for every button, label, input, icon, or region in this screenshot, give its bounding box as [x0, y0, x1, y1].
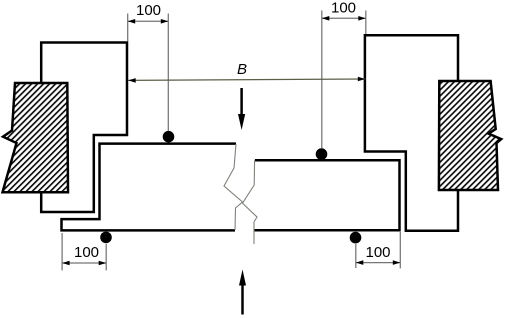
- load arrow up: [241, 285, 244, 315]
- right support block outline: [365, 35, 458, 231]
- left support block outline: [41, 43, 127, 213]
- right slab (thick outline): [254, 160, 399, 230]
- bottom-left dimension 100: [62, 233, 106, 270]
- roller upper-left: [163, 131, 175, 143]
- right wall section (hatched): [439, 81, 501, 190]
- svg-text:100: 100: [136, 2, 161, 19]
- right slab break line: [243, 160, 258, 244]
- left slab (thick outline): [62, 144, 237, 231]
- left slab break line: [224, 144, 243, 230]
- dimension B line: [128, 79, 365, 80]
- svg-text:100: 100: [331, 0, 356, 16]
- roller upper-right: [316, 148, 328, 160]
- load arrow down: [240, 88, 243, 116]
- svg-text:100: 100: [74, 244, 99, 261]
- svg-text:100: 100: [365, 244, 390, 261]
- top-right dimension 100: [322, 11, 366, 149]
- bottom-right dimension 100: [356, 232, 401, 268]
- roller lower-left: [100, 232, 112, 244]
- top-left dimension 100: [128, 14, 169, 132]
- svg-text:B: B: [237, 61, 247, 78]
- roller lower-right: [350, 232, 362, 244]
- left wall section (hatched): [3, 83, 69, 192]
